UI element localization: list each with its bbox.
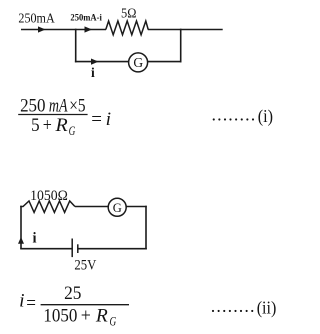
- current arrow: 250mA into node: [38, 26, 46, 32]
- svg-text:........: ........: [212, 104, 257, 124]
- svg-text:G: G: [110, 313, 117, 328]
- svg-text:+: +: [43, 115, 52, 136]
- svg-text:×5: ×5: [69, 95, 85, 116]
- wire: circuit 2 top right segment: [126, 206, 147, 208]
- wire: galvanometer branch right segment: [148, 61, 182, 63]
- equation (ii) denominator 1050+RG: [43, 306, 116, 329]
- svg-text:mA: mA: [49, 95, 68, 116]
- svg-text:G: G: [113, 201, 122, 215]
- svg-text:+: +: [81, 306, 91, 327]
- equation (ii) fraction bar: [41, 304, 129, 306]
- svg-text:i: i: [19, 291, 24, 312]
- svg-text:5Ω: 5Ω: [121, 7, 136, 22]
- equation (i) equals i: [91, 109, 111, 130]
- equation (i) numerator 250 mA×5: [20, 95, 85, 116]
- current arrow: 250mA-i through resistor branch: [85, 26, 93, 32]
- wire: galvanometer branch left segment: [75, 61, 129, 63]
- svg-text:1050Ω: 1050Ω: [30, 188, 68, 204]
- svg-text:i: i: [91, 65, 95, 80]
- current arrow: i upward in left wire: [18, 237, 24, 244]
- wire: top-left input lead of circuit 1: [21, 29, 106, 31]
- svg-text:G: G: [69, 123, 76, 138]
- equation (i) fraction bar: [18, 114, 87, 116]
- svg-text:........: ........: [211, 296, 256, 316]
- wire: circuit 2 bottom left segment: [20, 248, 72, 250]
- svg-text:25V: 25V: [74, 258, 96, 274]
- svg-text:R: R: [95, 306, 108, 327]
- wire: right vertical joining branches: [180, 29, 182, 63]
- svg-text:5: 5: [31, 115, 39, 136]
- wire: circuit 2 right vertical: [145, 206, 147, 250]
- battery 25V positive plate (long): [71, 239, 73, 258]
- galvanometer G (circuit 2): [108, 198, 126, 216]
- svg-text:250mA: 250mA: [18, 12, 55, 27]
- svg-text:(ii): (ii): [257, 297, 277, 318]
- svg-text:250mA-i: 250mA-i: [70, 14, 102, 24]
- wire: circuit 2 left vertical: [20, 206, 22, 249]
- resistor 1050Ω zigzag: [20, 201, 75, 212]
- current arrow: i through galvanometer branch: [91, 59, 99, 65]
- resistor 5Ω zigzag: [106, 21, 148, 35]
- svg-text:25: 25: [64, 283, 81, 304]
- wire: circuit 2 bottom right segment: [78, 248, 147, 250]
- svg-text:=: =: [26, 293, 36, 314]
- wire: junction vertical drop at left node: [75, 29, 77, 63]
- wire: top branch from resistor to right output: [148, 29, 223, 31]
- equation (i) denominator 5+RG: [31, 115, 76, 138]
- svg-text:1050: 1050: [43, 306, 77, 327]
- svg-text:(i): (i): [258, 106, 273, 127]
- svg-text:G: G: [133, 55, 143, 70]
- svg-text:R: R: [54, 115, 68, 136]
- svg-text:i: i: [106, 109, 111, 130]
- svg-text:250: 250: [20, 95, 45, 116]
- svg-text:=: =: [91, 109, 102, 130]
- svg-text:i: i: [33, 230, 37, 246]
- galvanometer G (circuit 1): [129, 53, 148, 72]
- wire: circuit 2 top segment to galvanometer: [75, 206, 108, 208]
- equation (ii) i =: [19, 291, 36, 314]
- battery 25V negative plate (short): [77, 244, 79, 253]
